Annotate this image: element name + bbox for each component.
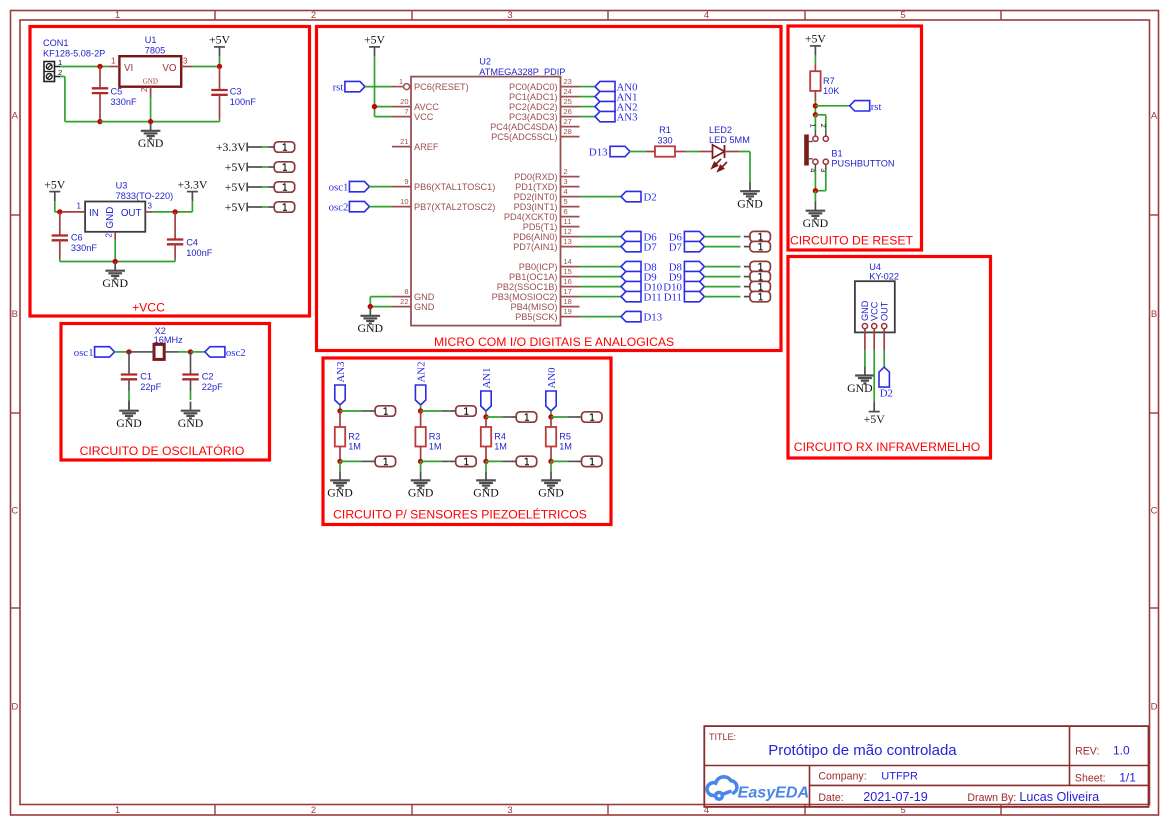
block box MICRO (317, 27, 782, 351)
junction button top (813, 112, 818, 117)
U1 pin 1 (109, 66, 119, 68)
connector header 1-pin (744, 266, 750, 268)
net flag AN2 (595, 101, 615, 111)
svg-text:VI: VI (124, 63, 133, 74)
svg-text:R1: R1 (659, 125, 671, 135)
wire osc1 to X2 (115, 351, 129, 353)
net flag D9 (621, 271, 641, 281)
wire U1.VO to +5V/C3 (192, 66, 220, 68)
lower ground rail wire (60, 261, 115, 263)
svg-text:D2: D2 (880, 388, 893, 400)
svg-text:2: 2 (819, 124, 828, 128)
svg-text:PD1(TXD): PD1(TXD) (515, 182, 557, 192)
junction C4 top (172, 209, 177, 214)
svg-text:CIRCUITO DE RESET: CIRCUITO DE RESET (790, 234, 914, 248)
svg-text:U1: U1 (145, 35, 157, 45)
svg-text:A: A (1151, 111, 1158, 122)
block box +VCC (30, 27, 310, 317)
net flag D13 to R1 (610, 146, 630, 156)
ground GND under U3 (114, 262, 116, 270)
svg-text:AN3: AN3 (335, 362, 347, 383)
title block line under title row (704, 765, 1148, 767)
net flag AN3 vertical (335, 385, 345, 405)
wire flag to header pin (704, 236, 740, 238)
title block vertical REV column (1069, 726, 1071, 785)
svg-text:6: 6 (564, 207, 568, 216)
svg-text:GND: GND (102, 276, 128, 290)
svg-text:U3: U3 (116, 181, 128, 191)
svg-text:MICRO COM I/O DIGITAIS E ANALO: MICRO COM I/O DIGITAIS E ANALOGICAS (434, 335, 674, 349)
svg-text:1: 1 (58, 58, 62, 67)
ground GND under U1 (150, 122, 152, 130)
net flag AN1 vertical (481, 391, 491, 411)
wires PD6/PD7 to D6/D7 flags (580, 236, 622, 238)
svg-text:C: C (1151, 506, 1158, 517)
svg-text:IN: IN (89, 208, 99, 219)
svg-text:2: 2 (564, 167, 568, 176)
U2 pin 16 PB2(SSOC1B) (561, 286, 580, 288)
ground GND under R5 (550, 471, 552, 479)
svg-text:PB6(XTAL1TOSC1): PB6(XTAL1TOSC1) (414, 182, 495, 192)
net flag osc1 left (95, 347, 115, 357)
wire X2 to osc2 (178, 351, 191, 353)
svg-text:PB0(ICP): PB0(ICP) (519, 262, 558, 272)
svg-text:PD5(T1): PD5(T1) (523, 222, 558, 232)
svg-text:D: D (1151, 702, 1158, 713)
svg-text:osc2: osc2 (226, 347, 246, 359)
junction R5 bottom (548, 459, 553, 464)
svg-text:D7: D7 (644, 242, 658, 254)
svg-text:16MHz: 16MHz (154, 335, 184, 345)
U2 pin 2 PD0(RXD) (561, 176, 580, 178)
connector header 1-pin (744, 296, 750, 298)
capacitor C1 22pF (128, 352, 130, 374)
frame column ticks top (214, 11, 216, 21)
wire to ground (485, 461, 487, 471)
wire to ground (550, 461, 552, 471)
wire to button pin 2 (815, 114, 825, 116)
svg-text:1: 1 (111, 57, 116, 66)
net flag D2 vertical (879, 367, 889, 387)
wire to sensor header bottom (551, 460, 568, 462)
connector header 1-pin (744, 286, 750, 288)
svg-text:TITLE:: TITLE: (709, 732, 736, 742)
junction C3 top (217, 64, 222, 69)
svg-text:7: 7 (404, 107, 408, 116)
U2 pin 21 AREF (392, 146, 411, 148)
connector sensor 1-pin bottom (510, 460, 516, 462)
svg-text:PD2(INT0): PD2(INT0) (514, 192, 558, 202)
svg-text:+5V: +5V (225, 180, 247, 194)
svg-text:2: 2 (311, 805, 316, 816)
svg-text:330: 330 (657, 136, 672, 146)
svg-text:PB2(SSOC1B): PB2(SSOC1B) (497, 282, 558, 292)
U2 pin 19 PB5(SCK) (561, 316, 580, 318)
svg-text:+VCC: +VCC (132, 301, 165, 315)
U2 pin 8 GND (392, 296, 411, 298)
svg-text:PB7(XTAL2TOSC2): PB7(XTAL2TOSC2) (414, 202, 495, 212)
svg-text:D: D (11, 702, 18, 713)
EasyEDA logo cloud (707, 777, 737, 799)
frame column ticks bottom (214, 805, 216, 816)
svg-text:+5V: +5V (225, 200, 247, 214)
wires U2 PC0-PC3 to AN flags (580, 86, 596, 88)
connector header 1-pin (744, 236, 750, 238)
svg-text:2021-07-19: 2021-07-19 (863, 790, 927, 804)
svg-text:rst: rst (333, 82, 344, 94)
U2 pin 5 PD3(INT1) (561, 206, 580, 208)
U4 pin GND (862, 324, 867, 329)
svg-text:C4: C4 (186, 238, 198, 248)
svg-text:28: 28 (564, 127, 572, 136)
ground rail wire (100, 121, 151, 123)
connector header 1-pin (744, 276, 750, 278)
resistor R5 1M (550, 417, 552, 427)
svg-text:osc1: osc1 (329, 182, 349, 194)
svg-text:PC2(ADC2): PC2(ADC2) (509, 102, 558, 112)
ground GND after LED2 (749, 182, 751, 190)
svg-text:GND: GND (327, 486, 353, 500)
capacitor C5 (99, 67, 101, 89)
svg-text:330nF: 330nF (111, 97, 137, 107)
svg-text:PC0(ADC0): PC0(ADC0) (509, 82, 558, 92)
svg-text:1/1: 1/1 (1119, 771, 1136, 785)
svg-text:GND: GND (358, 321, 384, 335)
svg-text:7805: 7805 (145, 46, 165, 56)
svg-text:KF128-5.08-2P: KF128-5.08-2P (43, 49, 105, 59)
svg-text:21: 21 (400, 137, 408, 146)
svg-text:PD7(AIN1): PD7(AIN1) (513, 242, 557, 252)
svg-text:25: 25 (564, 97, 572, 106)
svg-text:D7: D7 (669, 242, 683, 254)
svg-text:2: 2 (58, 68, 62, 77)
svg-text:LED2: LED2 (709, 125, 732, 135)
svg-text:14: 14 (564, 257, 572, 266)
net flag rst to U2 (345, 81, 365, 91)
junction U2 GND (368, 304, 373, 309)
U2 pin 14 PB0(ICP) (561, 266, 580, 268)
svg-text:1.0: 1.0 (1113, 744, 1130, 758)
svg-text:1M: 1M (494, 442, 507, 452)
block box CIRCUITO DE RESET (788, 26, 922, 250)
U2 pin 15 PB1(OC1A) (561, 276, 580, 278)
net flag D2 (621, 191, 641, 201)
CON1 pin 1 (55, 66, 61, 68)
svg-text:GND: GND (847, 381, 873, 395)
U4 pin OUT (882, 324, 887, 329)
wire button pin 4 down (814, 164, 816, 170)
svg-text:B1: B1 (831, 148, 842, 158)
svg-text:B: B (1151, 309, 1157, 320)
svg-text:U2: U2 (479, 57, 491, 67)
CON1 pin 2 (55, 76, 61, 78)
svg-text:26: 26 (564, 107, 572, 116)
wire +5V to R7 (814, 55, 816, 64)
svg-text:1: 1 (77, 202, 82, 211)
connector sensor 1-pin bottom (369, 460, 375, 462)
junction R3 bottom (418, 459, 423, 464)
ground GND under R4 (485, 471, 487, 479)
net flag osc1 to U2 (349, 181, 369, 191)
net flag D8 to header (684, 261, 704, 271)
svg-text:PC5(ADC5SCL): PC5(ADC5SCL) (491, 132, 557, 142)
title block line under company row (810, 784, 1149, 786)
U2 pin 24 PC1(ADC1) (561, 96, 580, 98)
svg-text:LED 5MM: LED 5MM (709, 135, 750, 145)
svg-text:Sheet:: Sheet: (1075, 773, 1106, 785)
wire to sensor header top (486, 416, 502, 418)
svg-text:C: C (11, 506, 18, 517)
connector sensor 1-pin top (369, 410, 375, 412)
svg-text:22: 22 (400, 297, 408, 306)
svg-text:3: 3 (507, 10, 512, 21)
svg-text:Lucas Oliveira: Lucas Oliveira (1019, 790, 1099, 804)
svg-text:VO: VO (162, 63, 177, 74)
ground GND under C2 (190, 402, 192, 410)
svg-text:U4: U4 (869, 262, 881, 272)
U2 pin 11 PD5(T1) (561, 226, 580, 228)
svg-text:10K: 10K (823, 86, 840, 96)
svg-text:8: 8 (404, 287, 408, 296)
U1 pin 2 (150, 87, 152, 97)
connector CON1 screw terminal (44, 62, 55, 82)
net flag AN2 vertical (415, 385, 425, 405)
svg-text:D11: D11 (664, 292, 682, 304)
wire rst to PC6 (365, 86, 392, 88)
wire to sensor header bottom (421, 460, 442, 462)
svg-text:2: 2 (105, 233, 114, 238)
svg-text:12: 12 (564, 227, 572, 236)
svg-text:PB4(MISO): PB4(MISO) (511, 302, 558, 312)
svg-text:OUT: OUT (121, 208, 142, 219)
svg-text:EasyEDA: EasyEDA (738, 783, 810, 801)
wire LED2 to GND (739, 151, 750, 153)
svg-text:3: 3 (507, 805, 512, 816)
block box CIRCUITO DE OSCILATORIO (61, 324, 270, 461)
wire CON1.2 down to ground rail (60, 76, 65, 78)
net flag rst (850, 101, 870, 111)
svg-text:GND: GND (473, 486, 499, 500)
net flag D11 (621, 291, 641, 301)
junction R4 bottom (483, 459, 488, 464)
net flag D9 to header (684, 271, 704, 281)
junction button bottom (813, 188, 818, 193)
svg-text:D2: D2 (644, 192, 657, 204)
svg-text:GND: GND (105, 207, 116, 229)
svg-text:4: 4 (704, 10, 709, 21)
pushbutton B1 (813, 136, 818, 141)
U1 pin 3 (181, 66, 192, 68)
svg-text:C1: C1 (140, 371, 152, 381)
wire CON1.1 to U1.VI (60, 66, 100, 68)
title block vertical logo cell (809, 766, 811, 807)
svg-text:+5V: +5V (864, 412, 886, 426)
svg-text:R3: R3 (429, 431, 441, 441)
svg-text:13: 13 (564, 237, 572, 246)
U2 pin 22 GND (392, 306, 411, 308)
svg-text:1M: 1M (559, 442, 572, 452)
U2 pin 13 PD7(AIN1) (561, 246, 580, 248)
svg-text:PD0(RXD): PD0(RXD) (514, 172, 557, 182)
U2 pin 25 PC2(ADC2) (561, 106, 580, 108)
svg-text:OUT: OUT (880, 301, 890, 321)
svg-text:7833(TO-220): 7833(TO-220) (116, 191, 174, 201)
svg-text:24: 24 (564, 87, 572, 96)
wire AN3 to node (339, 405, 341, 411)
svg-text:+5V: +5V (225, 160, 247, 174)
wire AN0 to node (550, 411, 552, 417)
svg-text:3: 3 (183, 57, 188, 66)
wire U4 GND (864, 350, 866, 366)
svg-text:1M: 1M (429, 442, 442, 452)
U2 pin 4 PD2(INT0) (561, 196, 580, 198)
svg-text:4: 4 (564, 187, 568, 196)
wire +5V down to AVCC/VCC (374, 56, 376, 106)
svg-text:5: 5 (564, 197, 568, 206)
svg-text:AN3: AN3 (617, 112, 638, 124)
net flag D11 to header (684, 291, 704, 301)
svg-text:+5V: +5V (209, 33, 231, 47)
resistor R3 1M (420, 411, 422, 427)
svg-text:PUSHBUTTON: PUSHBUTTON (831, 159, 894, 169)
svg-text:GND: GND (138, 136, 164, 150)
svg-text:GND: GND (414, 302, 435, 312)
wire PD2 to D2 flag (580, 196, 622, 198)
svg-text:D13: D13 (644, 312, 663, 324)
frame row ticks left (11, 214, 21, 216)
svg-text:GND: GND (408, 486, 434, 500)
wire button pin 3 down (825, 164, 827, 170)
connector sensor 1-pin top (510, 416, 516, 418)
svg-text:C3: C3 (230, 86, 242, 96)
resistor R1 330 (646, 151, 655, 153)
svg-text:2: 2 (311, 10, 316, 21)
connector sensor 1-pin top (450, 410, 456, 412)
svg-text:1: 1 (115, 10, 120, 21)
U3 pin 3 (145, 211, 152, 213)
capacitor C6 (59, 212, 61, 235)
svg-text:PC3(ADC3): PC3(ADC3) (509, 112, 558, 122)
wire to rst flag (815, 105, 849, 107)
svg-text:rst: rst (871, 101, 882, 113)
svg-text:Protótipo de mão controlada: Protótipo de mão controlada (768, 742, 957, 759)
svg-text:AN0: AN0 (546, 368, 558, 389)
svg-text:19: 19 (564, 307, 572, 316)
U2 pin 23 PC0(ADC0) (561, 86, 580, 88)
svg-text:2: 2 (140, 87, 149, 92)
svg-text:1: 1 (809, 124, 818, 128)
junction C2 top (188, 349, 193, 354)
connector sensor 1-pin bottom (576, 460, 582, 462)
svg-text:REV:: REV: (1075, 746, 1099, 758)
svg-text:3: 3 (148, 202, 153, 211)
wire osc1 to PB6 (369, 186, 392, 188)
frame row ticks right (1150, 214, 1159, 216)
U3 pin 1 (63, 211, 85, 213)
U2 pin 9 PB6(XTAL1TOSC1) (392, 186, 411, 188)
svg-text:20: 20 (400, 97, 408, 106)
wire osc2 to PB7 (369, 206, 392, 208)
crystal X2 16MHz (129, 351, 141, 353)
LED LED2 5MM (700, 151, 713, 153)
svg-text:PC1(ADC1): PC1(ADC1) (509, 92, 558, 102)
svg-text:R5: R5 (559, 431, 571, 441)
wire flag to header pin (704, 266, 740, 268)
svg-text:VCC: VCC (414, 112, 434, 122)
svg-text:R4: R4 (494, 431, 506, 441)
U2 pin 3 PD1(TXD) (561, 186, 580, 188)
svg-text:1: 1 (399, 77, 403, 86)
svg-text:9: 9 (404, 177, 408, 186)
svg-text:osc2: osc2 (329, 202, 349, 214)
svg-text:GND: GND (538, 486, 564, 500)
wires PB0-PB3 to D8-D11 flags (580, 266, 622, 268)
U2 pin 7 VCC (392, 116, 411, 118)
junction R4 top (483, 414, 488, 419)
resistor R2 1M (339, 411, 341, 427)
svg-text:Date:: Date: (818, 792, 843, 804)
junction C5 bottom (97, 119, 102, 124)
net flag AN1 (595, 91, 615, 101)
ground GND under U2 (369, 307, 371, 315)
net flag D7 to header (684, 241, 704, 251)
wire to sensor header bottom (486, 460, 502, 462)
svg-text:CIRCUITO RX INFRAVERMELHO: CIRCUITO RX INFRAVERMELHO (794, 440, 980, 454)
capacitor C3 (219, 67, 221, 90)
junction R3 top (418, 408, 423, 413)
svg-text:100nF: 100nF (230, 97, 256, 107)
svg-text:22pF: 22pF (202, 382, 223, 392)
LED2 emission arrows (712, 159, 727, 171)
wire D13 to R1 (630, 151, 646, 153)
U2 pin 18 PB4(MISO) (561, 306, 580, 308)
U2 pin 26 PC3(ADC3) (561, 116, 580, 118)
svg-text:A: A (12, 111, 19, 122)
svg-text:22pF: 22pF (140, 382, 161, 392)
net flag D8 (621, 261, 641, 271)
svg-text:B: B (12, 309, 18, 320)
svg-text:KY-022: KY-022 (869, 271, 899, 281)
svg-text:PB3(MOSIOC2): PB3(MOSIOC2) (492, 292, 558, 302)
junction C1 top (126, 349, 131, 354)
svg-text:D11: D11 (644, 292, 662, 304)
wire to button pin 1 (814, 115, 816, 130)
svg-text:AN2: AN2 (416, 362, 428, 383)
svg-text:AN1: AN1 (481, 368, 493, 389)
svg-text:PC4(ADC4SDA): PC4(ADC4SDA) (490, 122, 557, 132)
svg-text:15: 15 (564, 267, 572, 276)
svg-text:Drawn By:: Drawn By: (967, 792, 1016, 804)
net flag osc2 right (205, 347, 225, 357)
svg-text:GND: GND (116, 416, 142, 430)
junction R2 top (337, 408, 342, 413)
capacitor C4 (174, 212, 176, 239)
wire to ground (339, 461, 341, 471)
svg-text:GND: GND (178, 416, 204, 430)
net flag D13 at PB5 (621, 311, 641, 321)
junction U1 GND (148, 119, 153, 124)
svg-text:16: 16 (564, 277, 572, 286)
capacitor C2 22pF (190, 352, 192, 374)
svg-text:R2: R2 (348, 431, 360, 441)
connector sensor 1-pin bottom (450, 460, 456, 462)
svg-text:11: 11 (564, 217, 572, 226)
wire to sensor header top (421, 410, 442, 412)
ground GND reset (814, 202, 816, 210)
net flag AN3 (595, 111, 615, 121)
svg-text:VCC: VCC (870, 301, 880, 321)
svg-text:D13: D13 (589, 147, 608, 159)
